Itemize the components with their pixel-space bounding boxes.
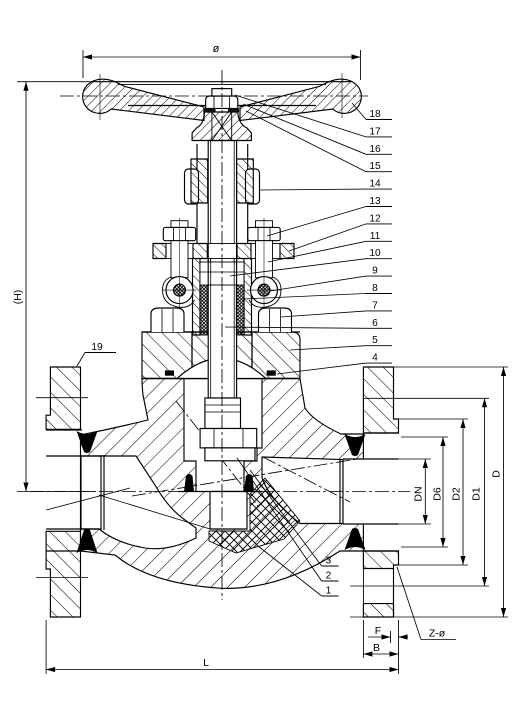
svg-text:15: 15 <box>369 161 381 172</box>
svg-text:F: F <box>375 625 381 637</box>
svg-text:4: 4 <box>372 353 378 364</box>
svg-text:1: 1 <box>326 586 332 597</box>
svg-text:D6: D6 <box>432 487 444 501</box>
svg-text:16: 16 <box>369 144 381 155</box>
svg-text:17: 17 <box>369 126 381 137</box>
svg-text:ø: ø <box>213 43 220 55</box>
svg-text:D: D <box>491 470 503 478</box>
svg-text:D2: D2 <box>450 487 462 501</box>
svg-text:11: 11 <box>370 231 381 242</box>
svg-text:10: 10 <box>369 248 381 259</box>
svg-text:14: 14 <box>369 179 381 190</box>
svg-text:12: 12 <box>369 213 381 224</box>
svg-text:B: B <box>373 642 380 654</box>
svg-text:DN: DN <box>413 486 425 501</box>
svg-text:19: 19 <box>91 342 103 353</box>
svg-text:3: 3 <box>326 556 332 567</box>
svg-text:(H): (H) <box>12 290 24 305</box>
svg-text:18: 18 <box>369 109 381 120</box>
svg-text:7: 7 <box>372 300 378 311</box>
svg-text:13: 13 <box>369 196 381 207</box>
svg-text:6: 6 <box>372 318 378 329</box>
svg-text:L: L <box>203 657 209 669</box>
svg-text:D1: D1 <box>471 487 483 501</box>
svg-text:2: 2 <box>326 571 332 582</box>
svg-text:5: 5 <box>372 335 378 346</box>
svg-text:Z-ø: Z-ø <box>429 628 446 640</box>
svg-text:8: 8 <box>372 283 378 294</box>
svg-text:9: 9 <box>372 266 378 277</box>
